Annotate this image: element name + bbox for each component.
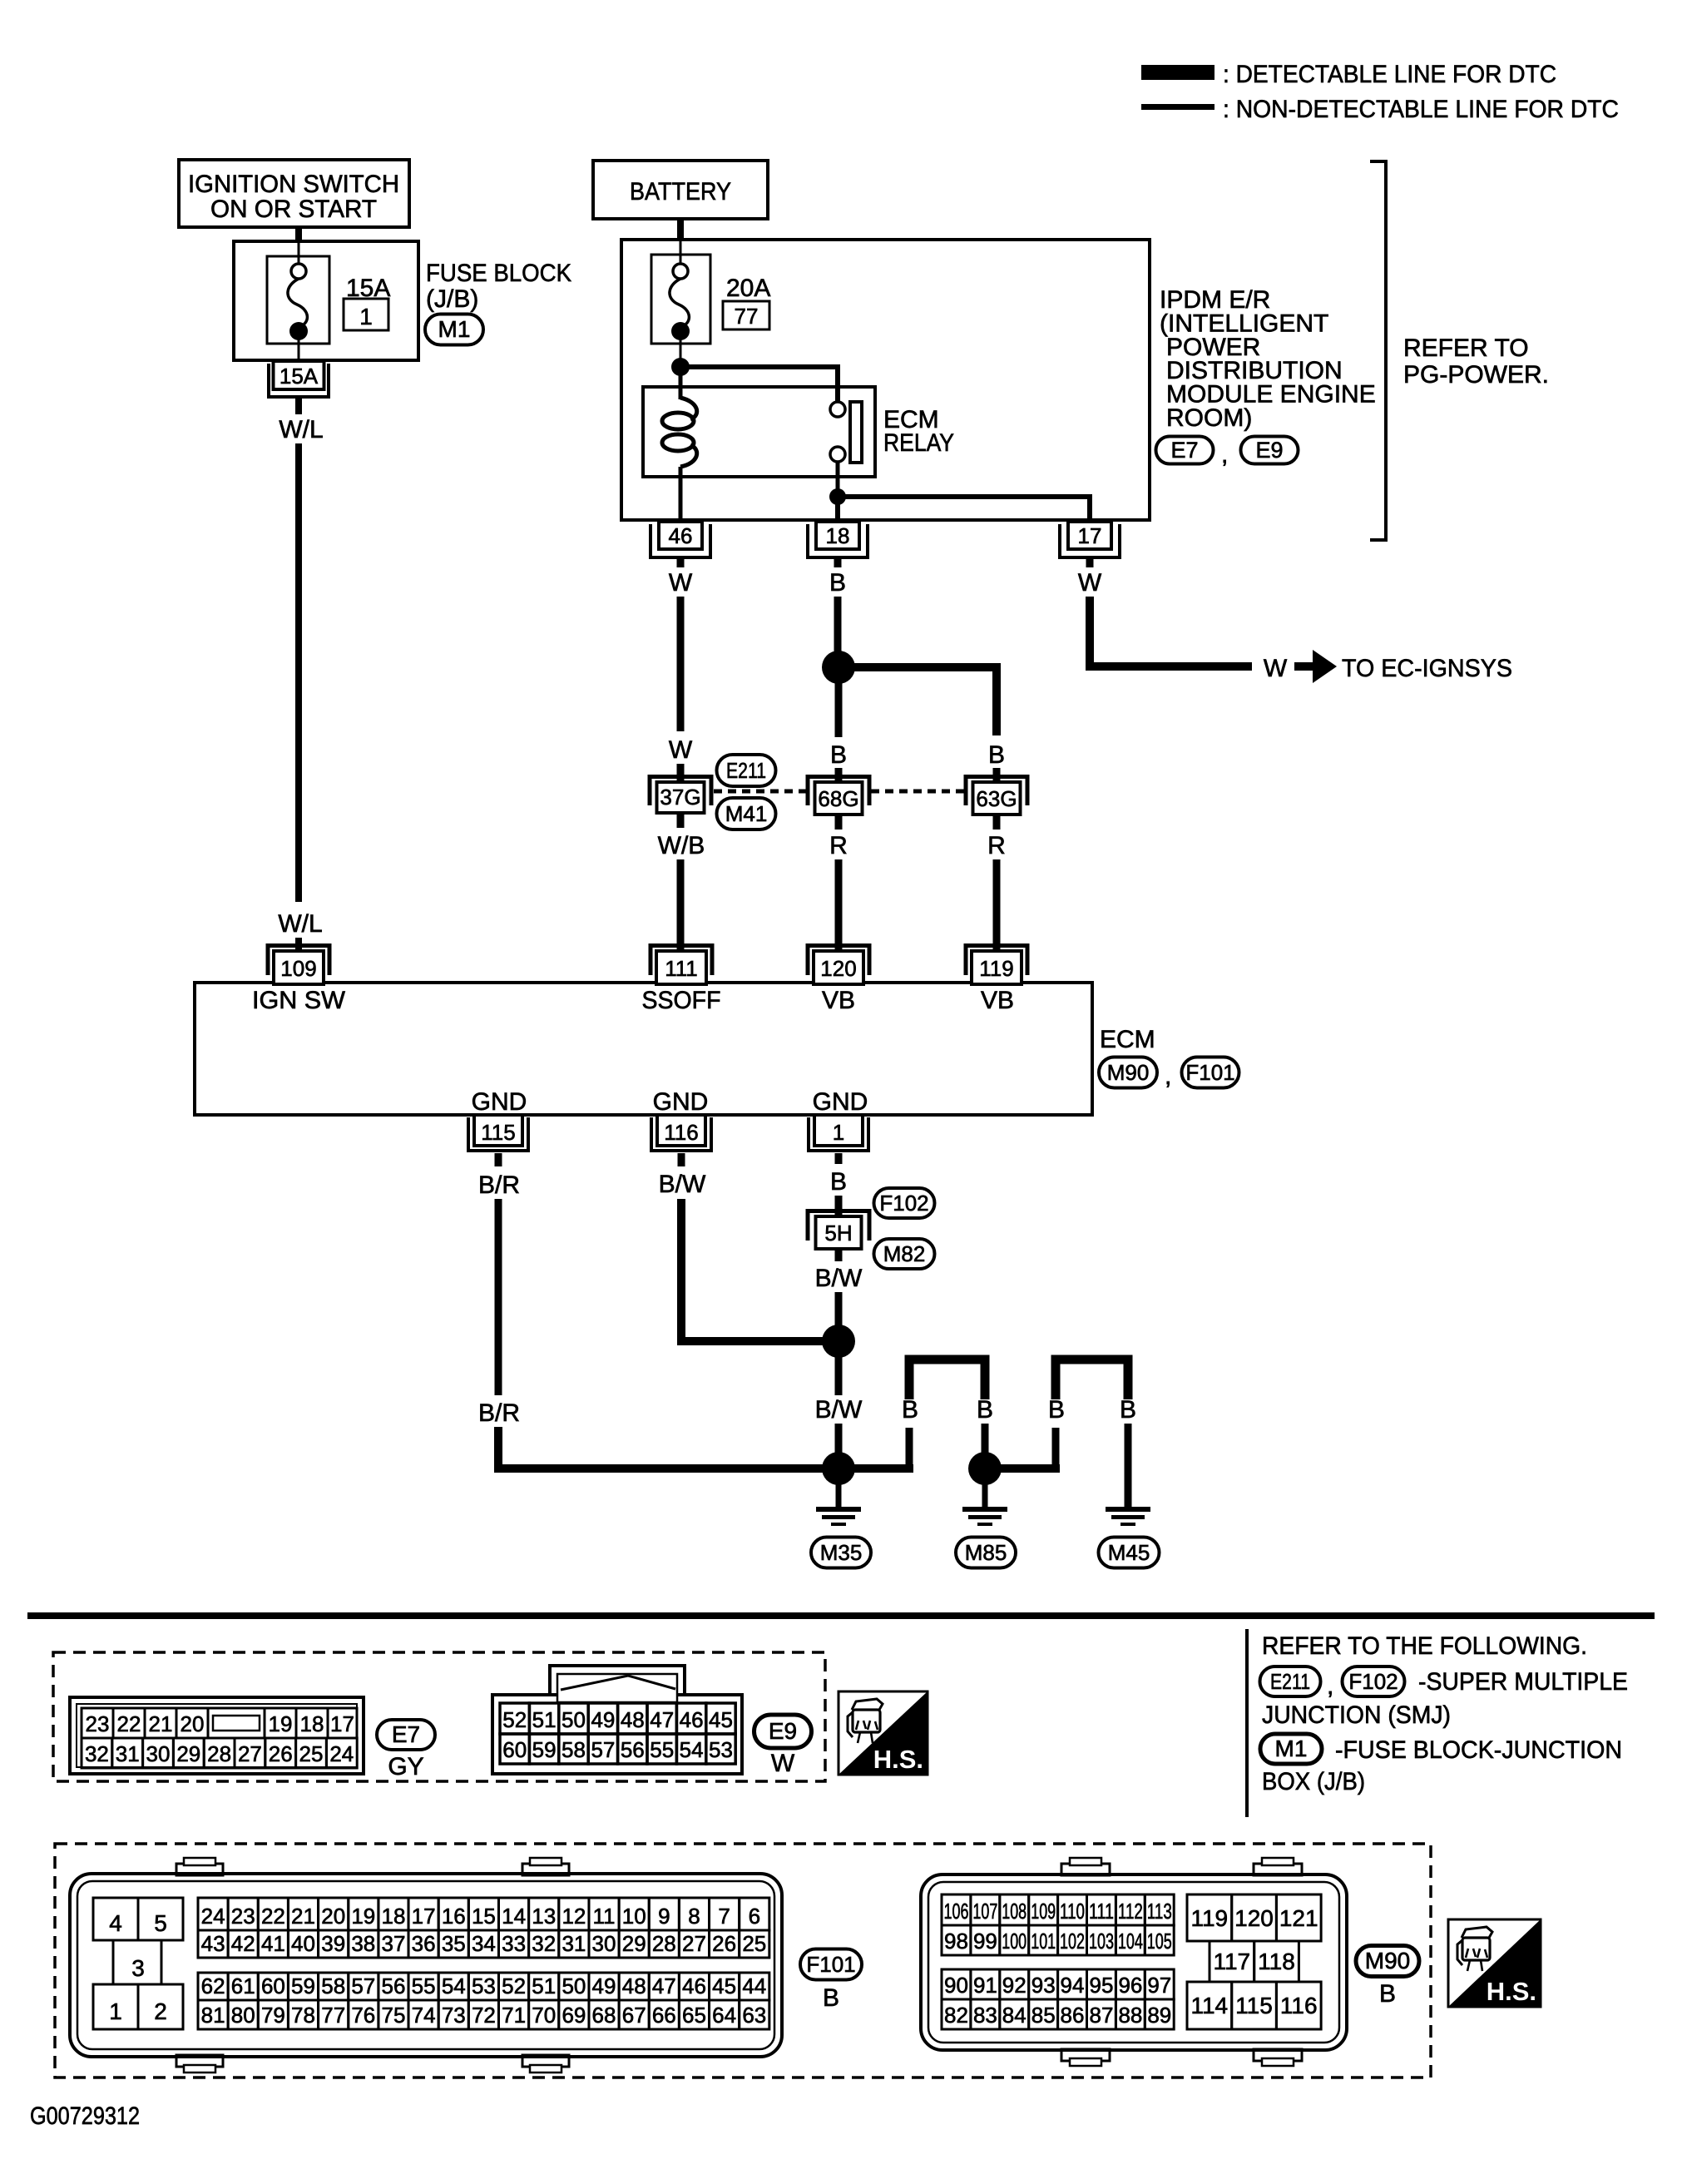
svg-text:59: 59 xyxy=(532,1737,557,1762)
wire junction down to relay coil xyxy=(679,367,683,399)
svg-text:73: 73 xyxy=(442,2003,466,2028)
wire battery to IPDM xyxy=(677,219,684,241)
ECM pin 109 xyxy=(268,946,329,985)
branch wire to 63G xyxy=(839,667,997,735)
svg-text:83: 83 xyxy=(973,2003,997,2028)
svg-text:ON OR START: ON OR START xyxy=(210,196,377,223)
svg-text:115: 115 xyxy=(1235,1993,1273,2018)
connector oval M82 xyxy=(874,1239,935,1269)
svg-text:120: 120 xyxy=(820,956,856,981)
svg-text:20: 20 xyxy=(181,1711,205,1736)
svg-text:26: 26 xyxy=(269,1741,293,1766)
svg-text:PG-POWER.: PG-POWER. xyxy=(1403,361,1549,389)
wire relay coil to pin 46 xyxy=(679,467,683,522)
oval M85 xyxy=(956,1538,1016,1568)
svg-text:117: 117 xyxy=(1213,1949,1250,1974)
wire junction to relay contact xyxy=(680,367,838,403)
E9 pin row 2 xyxy=(500,1734,529,1764)
connector oval F101 xyxy=(1182,1057,1239,1088)
svg-text:17: 17 xyxy=(330,1711,354,1736)
svg-text:115: 115 xyxy=(481,1120,515,1145)
svg-text:119: 119 xyxy=(1190,1905,1228,1931)
svg-text:63G: 63G xyxy=(976,786,1017,811)
svg-text:SSOFF: SSOFF xyxy=(642,987,721,1014)
svg-text:GND: GND xyxy=(653,1088,709,1116)
svg-text:116: 116 xyxy=(1280,1993,1318,2018)
svg-text:42: 42 xyxy=(231,1931,255,1956)
svg-text:B: B xyxy=(829,569,846,597)
svg-text:32: 32 xyxy=(85,1741,109,1766)
svg-text:46: 46 xyxy=(682,1974,706,1998)
legend: detectable line sample xyxy=(1141,65,1215,80)
M90 pin row 119-121 xyxy=(1187,1894,1232,1941)
svg-text:15A: 15A xyxy=(280,364,319,389)
svg-text:49: 49 xyxy=(592,1974,616,1998)
svg-text:9: 9 xyxy=(658,1904,670,1929)
svg-text:JUNCTION (SMJ): JUNCTION (SMJ) xyxy=(1262,1701,1451,1729)
svg-text:E7: E7 xyxy=(1170,438,1198,463)
IPDM E/R box xyxy=(621,240,1150,520)
wire W from pin 46 xyxy=(677,559,685,567)
svg-text:114: 114 xyxy=(1190,1993,1228,2018)
F101 pin row 81-63 xyxy=(198,2000,228,2029)
battery box xyxy=(593,161,768,219)
svg-text:70: 70 xyxy=(532,2003,556,2028)
svg-text:20A: 20A xyxy=(726,275,770,302)
wire B/W junction down xyxy=(835,1341,843,1395)
SMJ dashed link 68G-63G xyxy=(871,790,965,794)
svg-text:5H: 5H xyxy=(824,1221,852,1246)
svg-text:102: 102 xyxy=(1060,1929,1085,1954)
svg-text:W: W xyxy=(1264,655,1288,682)
M90 pin row 90-97 xyxy=(942,1969,971,1999)
svg-text:58: 58 xyxy=(561,1737,586,1762)
connector oval F101 (face) xyxy=(800,1949,862,1980)
oval M35 xyxy=(811,1538,871,1568)
fuse 77 element xyxy=(673,264,688,279)
svg-text:B: B xyxy=(988,741,1005,769)
svg-text:27: 27 xyxy=(682,1931,706,1956)
wire into fuse 77 xyxy=(680,241,682,264)
svg-text:121: 121 xyxy=(1279,1905,1318,1931)
svg-text:38: 38 xyxy=(351,1931,375,1956)
svg-text:VB: VB xyxy=(822,987,855,1014)
svg-text:M1: M1 xyxy=(1275,1736,1308,1761)
H.S. icon (upper) xyxy=(839,1691,928,1775)
svg-text:110: 110 xyxy=(1060,1899,1085,1924)
svg-text:TO EC-IGNSYS: TO EC-IGNSYS xyxy=(1342,655,1512,682)
IPDM pin 17 xyxy=(1060,522,1120,557)
wire B from pin 1 xyxy=(835,1153,843,1164)
svg-text:95: 95 xyxy=(1090,1973,1114,1998)
M90 pin row 117-118 xyxy=(1210,1941,1254,1982)
fuse number box 1 xyxy=(344,299,388,330)
svg-text:2: 2 xyxy=(154,1998,167,2024)
svg-text:109: 109 xyxy=(1031,1899,1056,1924)
svg-text:F101: F101 xyxy=(806,1952,855,1977)
relay contact bar xyxy=(850,402,862,463)
svg-text:B/R: B/R xyxy=(478,1171,520,1199)
svg-text:28: 28 xyxy=(207,1741,231,1766)
svg-text:103: 103 xyxy=(1089,1929,1114,1954)
wire W/B from 37G xyxy=(677,813,685,828)
svg-text:52: 52 xyxy=(502,1974,526,1998)
ECM pin 115 xyxy=(468,1115,528,1151)
svg-text:45: 45 xyxy=(712,1974,736,1998)
svg-text:M35: M35 xyxy=(820,1540,863,1565)
svg-text:63: 63 xyxy=(742,2003,766,2028)
svg-text:52: 52 xyxy=(502,1707,527,1732)
svg-text:37: 37 xyxy=(382,1931,406,1956)
svg-text:86: 86 xyxy=(1061,2003,1085,2028)
wire B from pin 18 xyxy=(834,559,842,567)
connector oval M90 (face) xyxy=(1356,1946,1419,1977)
svg-text:1: 1 xyxy=(359,304,373,329)
svg-text:97: 97 xyxy=(1147,1973,1171,1998)
svg-text:7: 7 xyxy=(718,1904,730,1929)
svg-text:,: , xyxy=(1165,1062,1171,1090)
fuse 77 symbol box xyxy=(651,255,710,344)
connector oval F102 xyxy=(874,1188,935,1218)
svg-text:10: 10 xyxy=(622,1904,646,1929)
svg-text:80: 80 xyxy=(231,2003,255,2028)
svg-text:E9: E9 xyxy=(1255,438,1283,463)
ignition switch box xyxy=(179,160,409,227)
svg-text:109: 109 xyxy=(280,956,316,981)
svg-text:74: 74 xyxy=(412,2003,436,2028)
svg-text:69: 69 xyxy=(561,2003,586,2028)
svg-text:47: 47 xyxy=(650,1707,674,1732)
ECM pin 1 xyxy=(809,1115,868,1151)
relay coil xyxy=(662,398,697,467)
svg-text:48: 48 xyxy=(621,1707,645,1732)
svg-text:REFER TO: REFER TO xyxy=(1403,334,1529,362)
svg-text:6: 6 xyxy=(749,1904,760,1929)
svg-text:78: 78 xyxy=(291,2003,315,2028)
svg-text:F102: F102 xyxy=(1348,1669,1398,1694)
svg-text:M41: M41 xyxy=(725,801,768,826)
svg-text:B: B xyxy=(1379,1980,1396,2008)
svg-text:M85: M85 xyxy=(965,1540,1007,1565)
svg-text:76: 76 xyxy=(351,2003,375,2028)
svg-text:71: 71 xyxy=(502,2003,526,2028)
svg-text:W: W xyxy=(669,736,693,764)
M90 pin row 114-116 xyxy=(1187,1982,1232,2029)
F101 pin row 24-6 xyxy=(198,1898,228,1930)
svg-text:BATTERY: BATTERY xyxy=(630,178,731,206)
svg-text:M90: M90 xyxy=(1365,1948,1410,1974)
svg-text:ROOM): ROOM) xyxy=(1166,404,1252,432)
svg-text:53: 53 xyxy=(709,1737,733,1762)
svg-text:48: 48 xyxy=(622,1974,646,1998)
svg-text:W: W xyxy=(1078,569,1102,597)
svg-text:31: 31 xyxy=(116,1741,140,1766)
bracket refer to PG-POWER xyxy=(1370,161,1386,540)
svg-text:111: 111 xyxy=(1089,1899,1114,1924)
svg-text:59: 59 xyxy=(291,1974,315,1998)
svg-text:M45: M45 xyxy=(1108,1540,1150,1565)
svg-text:94: 94 xyxy=(1061,1973,1085,1998)
svg-text:45: 45 xyxy=(709,1707,733,1732)
oval E211 (note) xyxy=(1260,1666,1321,1696)
svg-text:B: B xyxy=(830,741,847,769)
svg-text:M82: M82 xyxy=(883,1241,926,1266)
svg-text:W: W xyxy=(771,1750,795,1777)
connector face E7 xyxy=(70,1697,364,1774)
H.S. icon (lower) xyxy=(1448,1919,1541,2007)
svg-text:17: 17 xyxy=(412,1904,436,1929)
svg-text:30: 30 xyxy=(146,1741,171,1766)
svg-text:R: R xyxy=(829,832,848,859)
junction dot on B wire xyxy=(822,651,855,684)
separator line xyxy=(27,1612,1655,1619)
svg-text:100: 100 xyxy=(1002,1929,1027,1954)
svg-text:51: 51 xyxy=(532,1707,557,1732)
wire W/L stub into pin 109 xyxy=(295,938,302,957)
dashed box E7 E9 xyxy=(53,1652,825,1781)
svg-text:30: 30 xyxy=(592,1931,616,1956)
svg-text:19: 19 xyxy=(269,1711,293,1736)
svg-text:105: 105 xyxy=(1147,1929,1172,1954)
svg-text:33: 33 xyxy=(502,1931,526,1956)
wire fuse to connector xyxy=(298,331,300,361)
svg-text:34: 34 xyxy=(472,1931,496,1956)
svg-text:40: 40 xyxy=(291,1931,315,1956)
relay contact circles xyxy=(830,402,845,417)
svg-text:64: 64 xyxy=(712,2003,736,2028)
svg-text:29: 29 xyxy=(176,1741,200,1766)
wire to ground M35 xyxy=(836,1468,842,1507)
svg-text:27: 27 xyxy=(238,1741,262,1766)
svg-text:22: 22 xyxy=(261,1904,285,1929)
svg-text:118: 118 xyxy=(1258,1949,1295,1974)
svg-text:56: 56 xyxy=(382,1974,406,1998)
loop wire 2 (B) xyxy=(1052,1428,1060,1468)
svg-text:15: 15 xyxy=(472,1904,496,1929)
svg-text:20: 20 xyxy=(321,1904,345,1929)
connector 15A (fuse block output) xyxy=(269,361,329,397)
wire R from 63G xyxy=(993,816,1001,830)
svg-text:85: 85 xyxy=(1031,2003,1056,2028)
svg-text:50: 50 xyxy=(561,1707,586,1732)
svg-text:87: 87 xyxy=(1090,2003,1114,2028)
wire B/W from 116 xyxy=(678,1153,685,1166)
connector face E9 xyxy=(492,1666,742,1774)
svg-text:54: 54 xyxy=(442,1974,466,1998)
svg-text:47: 47 xyxy=(652,1974,676,1998)
svg-text:82: 82 xyxy=(944,2003,968,2028)
svg-text:13: 13 xyxy=(532,1904,556,1929)
SMJ connector 5H xyxy=(808,1211,869,1250)
svg-text:77: 77 xyxy=(321,2003,345,2028)
svg-text:VB: VB xyxy=(981,987,1014,1014)
svg-text:91: 91 xyxy=(973,1973,997,1998)
svg-text:B: B xyxy=(823,1984,839,2012)
svg-text:: DETECTABLE LINE FOR DTC: : DETECTABLE LINE FOR DTC xyxy=(1223,61,1556,88)
connector oval E211 xyxy=(717,755,776,786)
svg-text:67: 67 xyxy=(622,2003,646,2028)
connector oval E7 xyxy=(1156,437,1214,464)
wire W/L upper segment xyxy=(295,397,302,414)
fuse block J/B box xyxy=(234,241,418,360)
svg-text:88: 88 xyxy=(1118,2003,1142,2028)
connector face F101 xyxy=(70,1858,782,2073)
M90 pin row 106-113 xyxy=(942,1894,971,1925)
svg-text:119: 119 xyxy=(979,956,1013,981)
svg-text:41: 41 xyxy=(261,1931,285,1956)
junction dot M85 xyxy=(968,1452,1002,1485)
svg-text:113: 113 xyxy=(1147,1899,1172,1924)
svg-text:68G: 68G xyxy=(818,786,858,811)
svg-text:55: 55 xyxy=(650,1737,674,1762)
svg-text:35: 35 xyxy=(442,1931,466,1956)
wire fuse 77 down to junction xyxy=(680,331,682,367)
svg-text:E211: E211 xyxy=(1270,1669,1310,1694)
oval M1 (note) xyxy=(1260,1734,1322,1764)
svg-text:31: 31 xyxy=(561,1931,586,1956)
wire B/R from 115 xyxy=(495,1153,502,1166)
svg-text:61: 61 xyxy=(231,1974,255,1998)
E7 pin row 2 xyxy=(82,1738,112,1768)
SMJ connector 37G xyxy=(650,777,711,814)
svg-text:11: 11 xyxy=(593,1904,616,1929)
svg-text:90: 90 xyxy=(944,1973,968,1998)
svg-text:F101: F101 xyxy=(1185,1060,1234,1085)
svg-text:57: 57 xyxy=(591,1737,615,1762)
svg-text:25: 25 xyxy=(299,1741,324,1766)
svg-text:108: 108 xyxy=(1002,1899,1027,1924)
svg-text:39: 39 xyxy=(321,1931,345,1956)
svg-text:G00729312: G00729312 xyxy=(30,2102,140,2130)
svg-text:120: 120 xyxy=(1234,1905,1274,1931)
junction dot below relay xyxy=(829,488,846,505)
svg-text:,: , xyxy=(1327,1672,1333,1700)
svg-text:16: 16 xyxy=(442,1904,466,1929)
svg-text:60: 60 xyxy=(502,1737,527,1762)
svg-text:55: 55 xyxy=(412,1974,436,1998)
svg-text:-FUSE BLOCK-JUNCTION: -FUSE BLOCK-JUNCTION xyxy=(1335,1736,1622,1764)
ECM pin 116 xyxy=(651,1115,711,1151)
svg-text:99: 99 xyxy=(973,1929,997,1954)
svg-text:29: 29 xyxy=(622,1931,646,1956)
svg-text:1: 1 xyxy=(833,1120,844,1145)
svg-text:60: 60 xyxy=(261,1974,285,1998)
svg-text:25: 25 xyxy=(742,1931,766,1956)
M90 pin row 98-105 xyxy=(942,1925,971,1955)
svg-text:GY: GY xyxy=(388,1753,423,1780)
svg-text:F102: F102 xyxy=(879,1191,928,1216)
svg-text:112: 112 xyxy=(1118,1899,1143,1924)
wire relay contact to junction xyxy=(836,461,840,497)
svg-text:B/W: B/W xyxy=(815,1396,863,1424)
svg-text:98: 98 xyxy=(944,1929,968,1954)
svg-text:44: 44 xyxy=(742,1974,766,1998)
IPDM pin 18 xyxy=(808,522,868,557)
svg-text:51: 51 xyxy=(532,1974,556,1998)
svg-text:36: 36 xyxy=(412,1931,436,1956)
svg-text:65: 65 xyxy=(682,2003,706,2028)
F101 pin row 62-44 xyxy=(198,1973,228,2000)
svg-text:57: 57 xyxy=(351,1974,375,1998)
svg-text:46: 46 xyxy=(669,523,693,548)
svg-text:RELAY: RELAY xyxy=(883,429,954,457)
svg-text:B: B xyxy=(1120,1396,1136,1424)
IPDM pin 46 xyxy=(651,522,710,557)
svg-text:62: 62 xyxy=(201,1974,225,1998)
svg-text:,: , xyxy=(1221,441,1228,468)
svg-text:18: 18 xyxy=(382,1904,406,1929)
svg-text:1: 1 xyxy=(109,1998,122,2024)
E7 pin row 1 xyxy=(82,1708,113,1738)
svg-text:W/B: W/B xyxy=(658,832,705,859)
svg-text:37G: 37G xyxy=(660,785,700,810)
connector oval E7 (face) xyxy=(377,1720,435,1750)
svg-text:ECM: ECM xyxy=(1100,1026,1155,1053)
svg-text:E7: E7 xyxy=(392,1721,420,1747)
svg-text:92: 92 xyxy=(1002,1973,1027,1998)
svg-text:107: 107 xyxy=(972,1899,997,1924)
svg-text:54: 54 xyxy=(680,1737,704,1762)
ground M35 symbol xyxy=(816,1507,861,1526)
connector oval M90 xyxy=(1099,1057,1157,1088)
svg-text:B: B xyxy=(1048,1396,1065,1424)
svg-text:24: 24 xyxy=(201,1904,225,1929)
svg-text:17: 17 xyxy=(1078,523,1102,548)
svg-text:43: 43 xyxy=(201,1931,225,1956)
svg-text:GND: GND xyxy=(472,1088,527,1116)
svg-text:93: 93 xyxy=(1031,1973,1056,1998)
ground M85 symbol xyxy=(962,1507,1007,1526)
connector oval M41 xyxy=(717,798,776,830)
junction dot ground row xyxy=(822,1452,855,1485)
E9 pin row 1 xyxy=(500,1703,529,1734)
junction dot below fuse 77 xyxy=(671,358,690,376)
svg-text:GND: GND xyxy=(813,1088,868,1116)
legend: non-detectable line sample xyxy=(1141,104,1215,110)
svg-text:BOX (J/B): BOX (J/B) xyxy=(1262,1768,1365,1795)
svg-text:111: 111 xyxy=(665,956,698,981)
svg-text:3: 3 xyxy=(131,1955,145,1981)
svg-text:101: 101 xyxy=(1031,1929,1056,1954)
svg-text:B: B xyxy=(977,1396,993,1424)
svg-text:26: 26 xyxy=(712,1931,736,1956)
ECM pin 119 xyxy=(966,946,1027,985)
svg-text:32: 32 xyxy=(532,1931,556,1956)
svg-text:B: B xyxy=(830,1168,847,1196)
svg-text:H.S.: H.S. xyxy=(1487,1977,1536,2006)
wire B/W below 5H xyxy=(835,1248,843,1261)
svg-text:H.S.: H.S. xyxy=(873,1745,923,1774)
connector oval M1 xyxy=(425,314,483,345)
svg-text:96: 96 xyxy=(1118,1973,1142,1998)
svg-text:W/L: W/L xyxy=(278,910,322,938)
M90 pin row 82-89 xyxy=(942,1999,971,2029)
svg-text:66: 66 xyxy=(652,2003,676,2028)
svg-text:W/L: W/L xyxy=(279,416,323,443)
connector oval E9 xyxy=(1241,437,1299,464)
wire junction to pin 17 xyxy=(838,497,1090,520)
svg-text:72: 72 xyxy=(472,2003,496,2028)
svg-text:106: 106 xyxy=(944,1899,969,1924)
svg-text:(J/B): (J/B) xyxy=(426,285,478,313)
svg-text:89: 89 xyxy=(1147,2003,1171,2028)
connector face M90 xyxy=(921,1858,1347,2066)
fuse 1 symbol box xyxy=(267,256,329,344)
svg-text:W: W xyxy=(669,569,693,597)
svg-text:81: 81 xyxy=(201,2003,225,2028)
wire W from pin 17 xyxy=(1086,559,1094,567)
svg-text:75: 75 xyxy=(382,2003,406,2028)
